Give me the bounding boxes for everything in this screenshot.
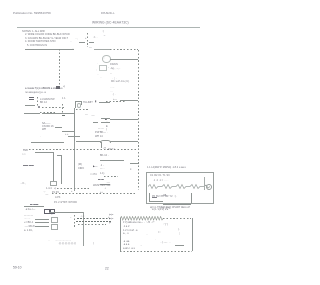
row 2 lighter	[25, 91, 46, 94]
lower-left scattered text	[20, 182, 26, 185]
small relay box	[99, 65, 107, 71]
long dashed wire	[29, 149, 138, 150]
wire circle to dashed	[110, 59, 138, 60]
tick at end of long vertical dashed	[130, 163, 138, 164]
dashed continuation of coil	[163, 218, 191, 219]
lines left bottom	[30, 203, 38, 206]
notes text block top-left	[22, 30, 45, 33]
dotted h	[76, 109, 88, 110]
header publication number	[13, 12, 51, 15]
dotted rows bottom of box	[55, 239, 71, 242]
coil terminal marks	[109, 214, 113, 217]
dark text row (cabinet boundary)	[25, 87, 63, 90]
dense squiggle rows right of box	[80, 215, 84, 218]
zigzag heater coil	[120, 216, 164, 221]
small text block	[42, 122, 50, 125]
vertical dashed line right (long)	[138, 50, 139, 190]
right column text rows	[110, 63, 118, 66]
header model number	[101, 12, 115, 15]
right box	[146, 172, 214, 204]
text inside bottom-right box	[123, 221, 155, 224]
mid text rows	[95, 131, 106, 134]
header rule	[17, 27, 200, 28]
dark marks right	[100, 191, 103, 194]
small circle right box	[206, 184, 212, 190]
drain pump circle	[102, 55, 111, 63]
long wire with hop	[76, 141, 138, 142]
wire with dotted continuation	[24, 113, 40, 114]
small box end of vertical	[50, 181, 57, 186]
vertical 2 with tick	[57, 155, 61, 156]
right column small wires	[113, 98, 117, 101]
bottom-left box	[49, 212, 83, 213]
notes right marks	[102, 30, 104, 33]
main top wire	[25, 49, 74, 50]
component labels inside right box	[150, 174, 170, 177]
vertical tick inside right box	[204, 177, 205, 190]
small vertical dashed	[37, 97, 38, 107]
junction dot	[38, 106, 40, 108]
cluster under dark row	[29, 97, 34, 98]
dotted row with plus	[54, 187, 56, 190]
top wire segment 2	[94, 49, 110, 50]
wire hop arc	[100, 140, 111, 144]
wavy component line inside right box	[148, 182, 210, 191]
tiny circle on bracket	[77, 103, 82, 108]
dark blob at dashed line end	[56, 86, 60, 89]
TM cluster	[23, 149, 28, 152]
bottom-right box edges	[120, 218, 121, 251]
dark dashes	[23, 164, 34, 167]
heater ladder rows	[24, 217, 30, 220]
P47 cluster right	[101, 142, 102, 148]
header wiring title	[92, 21, 129, 24]
marks left of right box	[130, 168, 131, 171]
marks 1 1	[62, 97, 66, 100]
right box label	[147, 166, 186, 169]
short v-dash	[62, 104, 63, 114]
caption under right box	[150, 206, 190, 209]
wire corner into vertical	[35, 152, 53, 153]
circ motor cluster	[78, 163, 82, 166]
vertical dashed line left	[59, 49, 60, 86]
small middle component box	[62, 115, 66, 117]
long dashed row	[52, 193, 137, 194]
dark connector bracket	[44, 209, 50, 214]
dotted row mid	[42, 107, 65, 108]
footer page refs	[13, 266, 21, 269]
marks left of dashed line	[96, 62, 99, 65]
thermal fuse component	[87, 33, 88, 47]
long vertical wire	[74, 108, 75, 141]
bracket wires middle	[75, 101, 76, 108]
bracket above coil	[149, 193, 150, 201]
